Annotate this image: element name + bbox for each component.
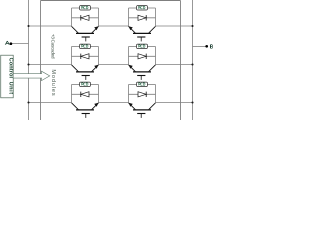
svg-text:Control: Control	[7, 58, 13, 79]
svg-text:Modules: Modules	[50, 69, 56, 95]
svg-text:Unit: Unit	[7, 82, 13, 95]
svg-text:+3 Cascaded: +3 Cascaded	[49, 34, 55, 59]
